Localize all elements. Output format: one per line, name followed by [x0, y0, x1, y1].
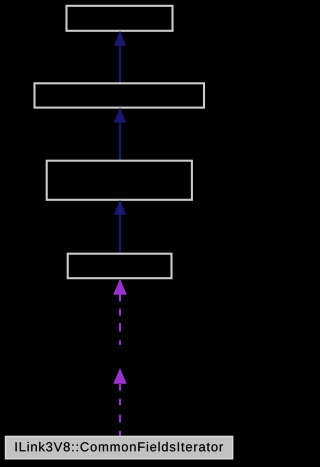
- inheritance arrow box4 to box3: [114, 200, 126, 254]
- node box3 (third ancestor class, two-line label hidden): [47, 161, 192, 200]
- template relation dashed arrow (lower) from main class: [113, 368, 127, 436]
- template relation dashed arrow (upper) into box4: [113, 279, 127, 345]
- node box2 (second ancestor class, label hidden): [35, 83, 205, 107]
- node box4 (template instance class, label hidden): [68, 254, 172, 279]
- node box1 (top ancestor class, label hidden): [67, 6, 173, 31]
- inheritance arrow box3 to box2: [114, 107, 126, 160]
- inheritance arrow box2 to box1: [114, 31, 126, 84]
- node main class ILink3V8::CommonFieldsIterator: [6, 436, 233, 458]
